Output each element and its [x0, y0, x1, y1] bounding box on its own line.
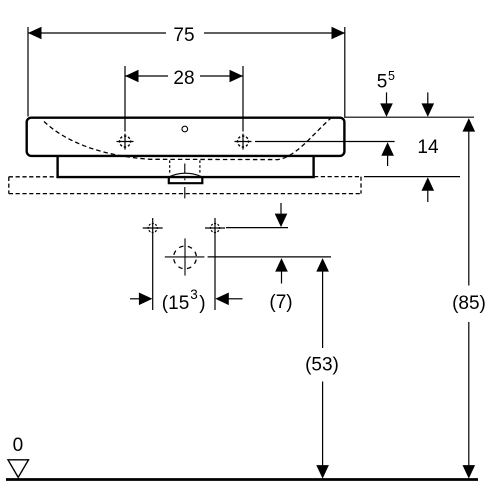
fixing hole left extension line	[152, 218, 154, 310]
drain stopper dome arc	[169, 173, 202, 177]
bottom reference line for 14	[364, 176, 460, 178]
dimension 28 line	[125, 75, 243, 77]
fixing hole right crosshair	[205, 224, 225, 233]
dimension 75 left arrow	[28, 27, 42, 40]
dimension 75 right arrow	[332, 27, 346, 40]
dimension 28 right arrow	[230, 70, 244, 83]
dimension 53 up arrow	[316, 258, 329, 272]
dimension 14 down arrow	[427, 92, 429, 103]
dimension 5.5 down arrow	[386, 92, 388, 103]
drain stopper tab	[169, 177, 203, 183]
svg-text:(85): (85)	[452, 293, 486, 314]
dimension 85 up arrow	[463, 118, 476, 132]
dashed installation zone box top left	[9, 176, 57, 178]
dimension 14 up arrow	[422, 177, 435, 191]
dimension 28 left extension line	[124, 66, 126, 132]
overflow hole circle	[182, 126, 188, 132]
dashed installation zone box bottom edge	[9, 193, 361, 195]
fixing hole left crosshair	[143, 224, 163, 233]
svg-text:(53): (53)	[305, 355, 339, 376]
svg-text:5: 5	[388, 69, 395, 83]
dashed installation zone box right edge	[360, 177, 362, 194]
dimension 75 right extension line	[344, 27, 346, 117]
dimension 75 left extension line	[27, 27, 29, 117]
svg-text:75: 75	[173, 25, 194, 46]
top reference line extended right	[344, 116, 474, 118]
dimension 15.3 left arrow	[130, 298, 139, 300]
dimension 7 up arrow	[275, 258, 288, 272]
drain centerline vertical	[184, 164, 186, 199]
dimension 7 down arrow	[280, 203, 282, 214]
dimension 28 right extension line	[242, 66, 244, 132]
siphon cover outline	[58, 156, 314, 177]
fixing hole reference line for 7	[226, 227, 288, 229]
basin outline	[27, 118, 345, 156]
drain trap dashed circle	[174, 246, 197, 269]
dimension 28 left arrow	[125, 70, 139, 83]
svg-text:(15: (15	[162, 293, 189, 314]
svg-text:): )	[199, 293, 205, 314]
floor line	[6, 478, 478, 481]
fixing hole right extension line	[214, 218, 216, 310]
dimension 75 line	[28, 32, 345, 34]
drain pipe hidden dashed left	[169, 160, 171, 174]
svg-text:28: 28	[173, 68, 194, 89]
svg-text:(7): (7)	[269, 292, 292, 313]
drain pipe hidden dashed right	[199, 160, 201, 174]
dimension 53 lower line and down arrow	[322, 382, 324, 466]
drain trap vertical centerline	[184, 238, 186, 275]
dimension 85 lower line and down arrow	[468, 322, 470, 465]
drain trap horizontal centerline and reference line for 53	[165, 256, 205, 258]
svg-text:3: 3	[190, 287, 198, 302]
svg-text:0: 0	[13, 435, 24, 456]
svg-text:5: 5	[377, 71, 388, 92]
tap hole centerline extended right	[255, 141, 395, 143]
datum triangle symbol	[8, 460, 29, 478]
svg-text:14: 14	[417, 137, 439, 158]
tap hole left crosshair	[117, 134, 134, 150]
dimension 15.3 right arrow	[215, 293, 229, 306]
dimension 5.5 up arrow	[381, 142, 394, 156]
tap hole right crosshair	[235, 134, 252, 150]
dashed installation zone box left edge	[8, 177, 10, 194]
dashed installation zone box top right	[314, 176, 361, 178]
basin inner bowl dashed curve	[44, 118, 331, 160]
